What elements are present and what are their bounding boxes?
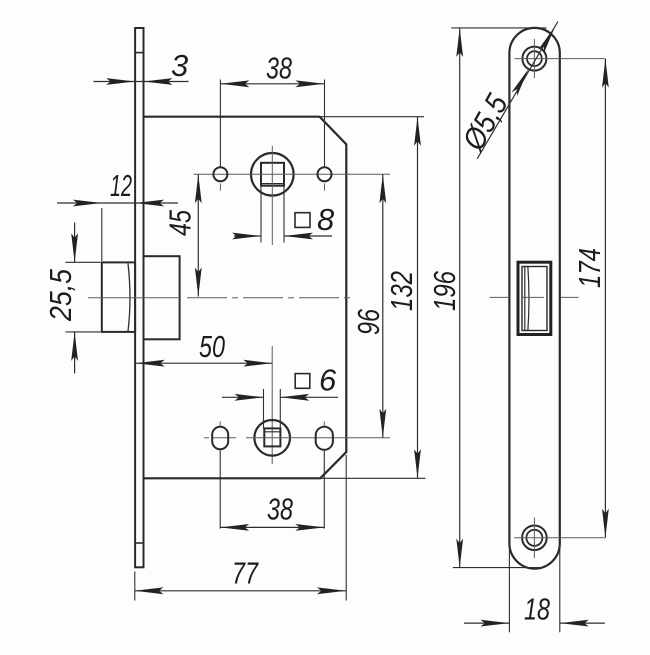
bottom screw crosshair bbox=[514, 537, 605, 539]
dim 50 bbox=[136, 362, 272, 364]
right view plate bbox=[509, 28, 559, 569]
svg-text:50: 50 bbox=[199, 329, 225, 364]
svg-text:8: 8 bbox=[317, 202, 335, 237]
latch cutout outer bbox=[518, 262, 551, 334]
dim 38 top bbox=[220, 83, 324, 85]
svg-text:38: 38 bbox=[267, 492, 294, 527]
dim 196 bbox=[459, 28, 461, 568]
dim 25,5 bbox=[74, 223, 76, 263]
lock case outline bbox=[144, 117, 347, 479]
hole R tick below bbox=[324, 184, 326, 191]
dim 12 bbox=[57, 202, 178, 204]
top screw hole outer bbox=[522, 47, 546, 71]
dim 45 bbox=[197, 174, 199, 296]
svg-text:12: 12 bbox=[110, 168, 132, 203]
latch bolt outer bbox=[102, 262, 135, 332]
top follower circle bbox=[251, 153, 294, 196]
top square inner line bbox=[261, 183, 284, 185]
latch inner body bbox=[144, 256, 180, 339]
bottom spindle vertical centerline bbox=[271, 346, 273, 464]
bottom-right oval hole bbox=[316, 427, 333, 450]
dim 96 bbox=[382, 174, 384, 438]
hole L tick below bbox=[219, 184, 221, 191]
svg-text:132: 132 bbox=[384, 271, 419, 311]
svg-text:18: 18 bbox=[524, 592, 551, 627]
svg-text:196: 196 bbox=[427, 270, 462, 311]
dim square8 bbox=[234, 235, 261, 237]
bottom-left oval hole bbox=[212, 427, 228, 450]
dim 38 bottom bbox=[220, 526, 324, 528]
svg-text:174: 174 bbox=[572, 248, 607, 288]
latch cutout inner bbox=[522, 267, 547, 331]
top-left screw hole bbox=[213, 167, 227, 181]
top holes centerline bbox=[194, 173, 391, 175]
bottom holes centerline bbox=[204, 437, 209, 439]
svg-text:3: 3 bbox=[171, 48, 188, 83]
top screw hole inner bbox=[527, 51, 542, 66]
cutout latch lines bbox=[524, 267, 526, 330]
faceplate strip (side view) bbox=[135, 28, 143, 567]
square symbol 6 bbox=[295, 374, 310, 389]
oval R vertical line bbox=[323, 422, 325, 427]
dim 3 line bbox=[94, 81, 189, 83]
bottom follower circle bbox=[254, 420, 290, 456]
strip tick top bbox=[135, 52, 143, 54]
top square hole 8mm bbox=[261, 163, 284, 186]
svg-text:Ø5,5: Ø5,5 bbox=[455, 88, 515, 157]
dim 18 bbox=[464, 622, 509, 624]
dia 5,5 leader bbox=[477, 22, 558, 159]
svg-text:96: 96 bbox=[351, 308, 386, 335]
bottom square hole 6mm bbox=[264, 428, 280, 446]
case top extension line bbox=[320, 116, 424, 118]
svg-text:45: 45 bbox=[163, 209, 198, 236]
bottom screw hole outer bbox=[522, 526, 547, 551]
cutout centerline bbox=[490, 296, 510, 298]
svg-text:6: 6 bbox=[319, 363, 337, 398]
dim square6 bbox=[222, 396, 264, 398]
dim 132 bbox=[417, 117, 419, 479]
bottom screw hole inner bbox=[526, 530, 542, 546]
case bottom extension line bbox=[320, 477, 425, 479]
top screw crosshair bbox=[514, 58, 605, 60]
svg-text:25,5: 25,5 bbox=[43, 268, 78, 322]
dim 174 bbox=[604, 59, 606, 538]
latch bevel curve bbox=[128, 264, 130, 332]
svg-text:77: 77 bbox=[232, 556, 259, 591]
dim 77 bbox=[135, 590, 346, 592]
top spindle vertical centerline bbox=[271, 146, 273, 245]
bottom square inner line bbox=[264, 431, 280, 433]
latch centerline bbox=[88, 297, 181, 299]
square symbol 8 bbox=[295, 213, 310, 228]
oval L vertical line bbox=[219, 422, 221, 427]
strip tick bottom bbox=[135, 542, 143, 544]
top-right screw hole bbox=[318, 167, 332, 181]
svg-text:38: 38 bbox=[266, 51, 293, 86]
